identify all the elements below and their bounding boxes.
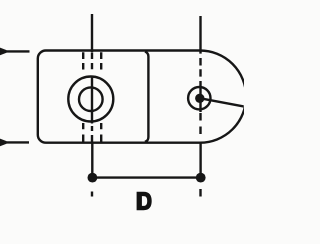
boss center dot — [195, 94, 204, 103]
width arrowhead top — [0, 48, 7, 56]
counterbore outer circle — [68, 77, 113, 122]
left centerline lower dashes — [91, 126, 93, 142]
dimension dot right — [196, 173, 206, 183]
counterbore inner circle — [79, 87, 103, 111]
part outline (stadium body with rounded left corners) — [38, 50, 246, 142]
width arrow line top — [0, 50, 30, 52]
small boss circle — [188, 87, 210, 109]
dimension line D — [92, 176, 200, 178]
left centerline upper — [91, 14, 93, 124]
label D — [137, 192, 152, 210]
left hidden line A — [82, 52, 84, 141]
dimension dot left — [88, 173, 98, 183]
width arrowhead bottom — [0, 139, 7, 147]
left hidden line B — [100, 52, 102, 141]
right extension dash below — [199, 189, 201, 197]
leader line — [201, 98, 244, 106]
left extension dash below — [91, 192, 93, 197]
right centerline lower dashes — [199, 113, 201, 134]
right centerline upper — [199, 16, 201, 112]
width arrow line bottom — [0, 141, 29, 143]
internal fillet edge — [145, 52, 149, 142]
right extension line — [199, 143, 201, 178]
left extension line — [91, 143, 93, 178]
